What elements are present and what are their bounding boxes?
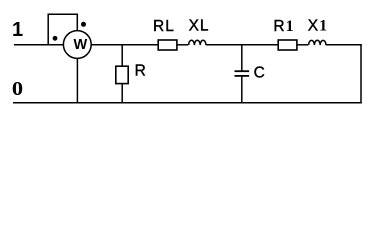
svg-text:C: C — [254, 64, 265, 81]
label C — [254, 64, 265, 81]
wire: X1 to right corner — [326, 44, 362, 46]
svg-text:XL: XL — [189, 18, 210, 35]
wire: bottom rail from terminal 0 — [13, 102, 362, 104]
node 1 (terminal label) — [12, 19, 23, 41]
wire: top rail, wattmeter to RL — [91, 44, 159, 46]
wire: terminal 1 to wattmeter — [14, 44, 64, 46]
resistor R — [116, 45, 128, 103]
svg-text:R: R — [135, 63, 146, 80]
svg-text:1: 1 — [12, 19, 23, 41]
svg-text:W: W — [73, 37, 87, 53]
svg-text:RL: RL — [153, 18, 175, 35]
wire: RL to XL — [177, 44, 188, 46]
label R — [135, 63, 146, 80]
svg-text:X1: X1 — [308, 18, 328, 35]
resistor RL — [158, 40, 177, 50]
node 0 (terminal label) — [12, 77, 23, 100]
label X1 — [308, 18, 328, 35]
svg-text:0: 0 — [12, 77, 23, 100]
wattmeter polarity dot (voltage coil) — [81, 22, 86, 27]
wire: voltage-coil drop from W to bottom rail — [76, 58, 78, 102]
label XL — [189, 18, 210, 35]
wire: XL to R1 (through node A) — [206, 44, 278, 46]
label R1 — [273, 18, 294, 35]
svg-text:R1: R1 — [273, 18, 294, 35]
inductor X1 — [309, 40, 326, 45]
capacitor C — [235, 45, 250, 103]
label RL — [153, 18, 175, 35]
wire: right vertical drop — [360, 45, 362, 104]
inductor XL — [189, 40, 206, 45]
wattmeter W — [63, 31, 91, 59]
resistor R1 — [278, 40, 297, 50]
wattmeter polarity dot (current coil) — [53, 36, 58, 41]
wire: R1 to X1 — [297, 44, 308, 46]
wire: wattmeter current-coil bridge — [48, 14, 77, 45]
